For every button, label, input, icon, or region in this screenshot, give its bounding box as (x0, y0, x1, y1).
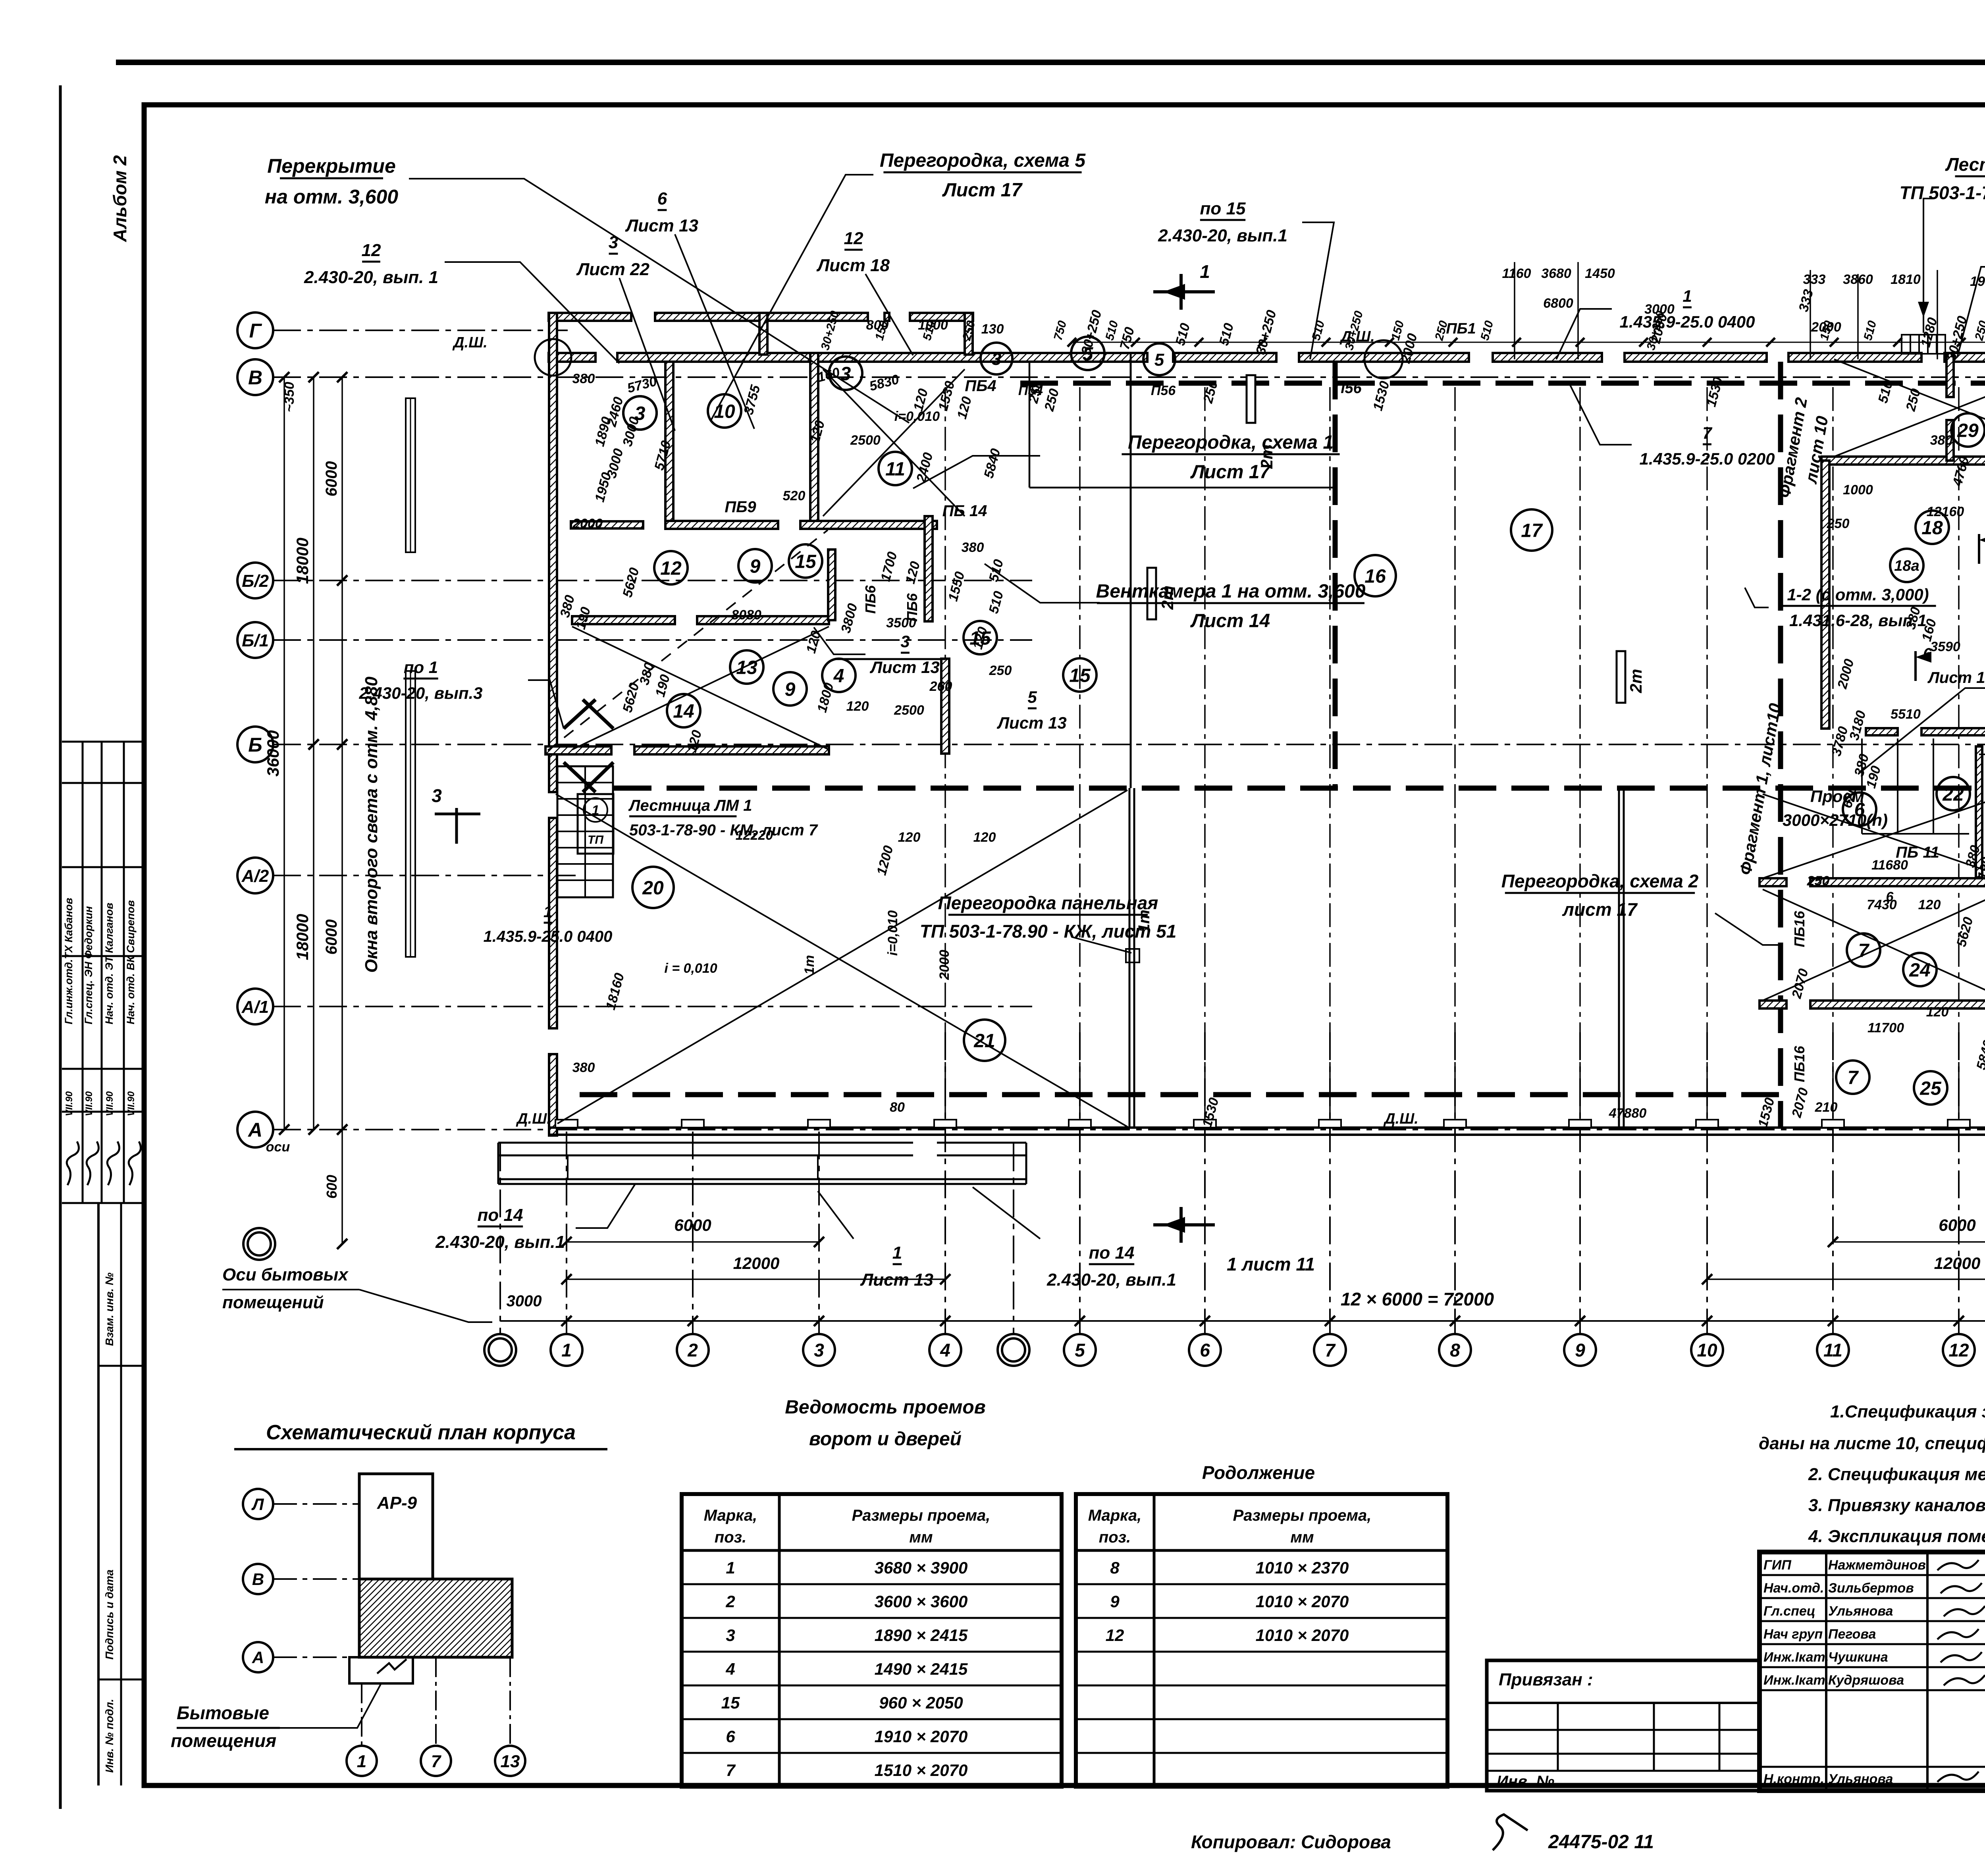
svg-text:6: 6 (1200, 1340, 1210, 1361)
step wall x1923 (759, 313, 767, 355)
heavy dashed vertical Фрагмент2 (1333, 362, 1338, 788)
svg-text:Венткамера 1 на отм. 3,600: Венткамера 1 на отм. 3,600 (1096, 581, 1366, 602)
svg-text:4: 4 (940, 1340, 950, 1361)
svg-text:18000: 18000 (293, 538, 312, 584)
svg-text:12: 12 (1106, 1626, 1124, 1645)
room circle 20 (632, 867, 674, 908)
svg-text:2.430-20, вып.3: 2.430-20, вып.3 (358, 684, 482, 702)
svg-text:Размеры проема,: Размеры проема, (852, 1507, 991, 1524)
svg-text:333: 333 (1803, 272, 1826, 287)
window symbol left upper (406, 398, 415, 552)
svg-text:600: 600 (324, 1175, 340, 1199)
svg-text:Копировал: Сидорова: Копировал: Сидорова (1191, 1832, 1391, 1852)
svg-text:лист 17: лист 17 (1562, 899, 1638, 920)
grid axis А (237, 1112, 273, 1147)
svg-text:12: 12 (660, 558, 682, 579)
svg-text:29: 29 (1957, 420, 1979, 441)
room circle 18 (1916, 511, 1949, 544)
room circle 4 (822, 659, 856, 692)
svg-text:Альбом 2: Альбом 2 (110, 155, 130, 243)
svg-text:Лист 13: Лист 13 (860, 1270, 933, 1290)
left annex (household rooms) (498, 1142, 913, 1144)
room 18 left wall (1821, 461, 1829, 729)
room circle 21 (964, 1020, 1005, 1061)
axis line А/2 (273, 875, 576, 876)
svg-text:4. Экспликация помещений да: 4. Экспликация помещений дана на листе 9… (1808, 1527, 1985, 1546)
sheet left edge (59, 85, 62, 1809)
svg-text:Пегова: Пегова (1828, 1627, 1876, 1642)
svg-text:3000×2710(h): 3000×2710(h) (1783, 811, 1888, 829)
svg-text:Окна второго света с отм. 4,88: Окна второго света с отм. 4,880 (362, 677, 381, 973)
svg-text:24475-02 11: 24475-02 11 (1548, 1832, 1654, 1853)
grid axis А/2 (237, 858, 273, 893)
svg-text:Перекрытие: Перекрытие (267, 155, 396, 177)
svg-text:ПБ16: ПБ16 (1791, 910, 1808, 947)
room circle 10 (708, 394, 741, 428)
svg-text:21: 21 (973, 1030, 995, 1051)
wall opening circle 3 (981, 343, 1012, 374)
column circle 11 (1817, 1334, 1849, 1366)
svg-text:VII.90: VII.90 (64, 1091, 75, 1116)
heavy dashed line lower (580, 1092, 1781, 1097)
column axis 3 (818, 1132, 820, 1334)
svg-text:ГИП: ГИП (1763, 1558, 1792, 1573)
svg-text:1: 1 (543, 903, 552, 921)
wall right of room 15 upper (925, 516, 933, 621)
привязан table (1487, 1660, 1760, 1791)
svg-text:Нач.отд.: Нач.отд. (1763, 1581, 1824, 1596)
svg-text:5: 5 (1027, 688, 1037, 706)
svg-text:22: 22 (1942, 784, 1964, 805)
schematic grid circle Л (243, 1489, 273, 1519)
svg-text:9: 9 (1575, 1340, 1585, 1361)
wall right of room 11 (810, 353, 818, 528)
left dim chain 18000 (313, 377, 314, 744)
svg-text:2т: 2т (1627, 669, 1645, 694)
svg-text:мм: мм (1290, 1529, 1314, 1546)
svg-text:6: 6 (657, 189, 667, 208)
svg-text:6: 6 (1886, 889, 1894, 904)
column axis 5 (1079, 1032, 1081, 1334)
svg-text:Оси бытовых: Оси бытовых (222, 1265, 349, 1284)
building left wall (549, 313, 557, 792)
column circle 12 (1943, 1334, 1975, 1366)
room circle 12 (654, 551, 688, 584)
svg-text:ПБ 14: ПБ 14 (942, 502, 987, 520)
svg-text:8080: 8080 (731, 607, 761, 623)
svg-text:4: 4 (725, 1660, 735, 1678)
svg-text:380: 380 (1930, 433, 1953, 448)
svg-text:7: 7 (1702, 424, 1712, 442)
svg-text:7: 7 (1325, 1340, 1336, 1361)
room circle 3 (623, 396, 657, 430)
column axis 6 (1204, 1032, 1206, 1334)
axis line Б/1 (273, 639, 1032, 641)
svg-text:ПБ4: ПБ4 (965, 377, 996, 395)
room circle 3 (623, 396, 657, 430)
svg-text:Нач груп: Нач груп (1763, 1627, 1823, 1642)
svg-text:12: 12 (844, 229, 863, 248)
svg-text:4: 4 (833, 665, 844, 686)
sheet outer top border (116, 60, 1985, 65)
stairs ЛМ2 symbol top (1902, 335, 1945, 354)
svg-text:Лист 12: Лист 12 (1927, 669, 1985, 686)
svg-text:Д.Ш.: Д.Ш. (1383, 1111, 1418, 1127)
schematic column circles (361, 1683, 362, 1745)
grid axis Б (237, 727, 273, 762)
crane mark 2т lower (1617, 651, 1625, 703)
svg-text:5: 5 (1075, 1340, 1085, 1361)
svg-text:6: 6 (726, 1727, 735, 1746)
svg-text:Марка,: Марка, (704, 1507, 757, 1524)
svg-text:10: 10 (714, 401, 735, 422)
svg-text:9: 9 (750, 556, 761, 577)
room circle 16 (1355, 555, 1396, 596)
wall opening circle 5 (1143, 343, 1175, 375)
svg-text:12000: 12000 (733, 1254, 780, 1273)
svg-text:20: 20 (642, 877, 664, 898)
toilet partitions right block (1861, 738, 1863, 834)
column axis 8 (1454, 1032, 1456, 1334)
svg-text:1.435.9-25.0 0400: 1.435.9-25.0 0400 (484, 928, 613, 945)
crane mark 2т upper (1147, 568, 1156, 619)
room circle 7 (1836, 1060, 1869, 1094)
svg-text:Перегородка, схема 2: Перегородка, схема 2 (1501, 871, 1699, 891)
svg-text:по 1: по 1 (404, 658, 438, 677)
svg-text:П56: П56 (1334, 380, 1362, 397)
svg-text:3590: 3590 (1930, 639, 1960, 654)
svg-text:ворот и дверей: ворот и дверей (809, 1429, 962, 1450)
ramp cross rooms 13/14 (572, 627, 829, 750)
column axis 7 (1329, 1032, 1331, 1334)
svg-text:1010 × 2370: 1010 × 2370 (1256, 1558, 1349, 1577)
wall room 15 lower (941, 659, 949, 754)
axis line А/1 (273, 1006, 1032, 1007)
svg-text:250: 250 (989, 663, 1012, 678)
svg-text:ТП 503-1-78.90 - КЖ, лист 51: ТП 503-1-78.90 - КЖ, лист 51 (920, 921, 1177, 941)
svg-text:2: 2 (725, 1592, 735, 1611)
column circle 5 (1064, 1334, 1096, 1366)
grid axis Г (237, 312, 273, 348)
wall x4905 upper (1946, 353, 1954, 397)
room circle 11 (879, 452, 912, 485)
svg-text:120: 120 (1926, 1005, 1949, 1020)
svg-text:13: 13 (736, 657, 757, 678)
svg-text:1490 × 2415: 1490 × 2415 (875, 1660, 968, 1678)
svg-text:8: 8 (1110, 1558, 1120, 1577)
building bottom wall (549, 1126, 1985, 1129)
svg-text:Размеры проема,: Размеры проема, (1233, 1507, 1372, 1524)
room 22 wall (1760, 878, 1786, 886)
bottom dim 6000/12000 right (1833, 1241, 1985, 1243)
svg-text:Б/1: Б/1 (242, 631, 269, 650)
svg-text:1010 × 2070: 1010 × 2070 (1256, 1592, 1349, 1611)
svg-text:даны на листе 10, спецификация: даны на листе 10, спецификация перемычек… (1759, 1434, 1985, 1453)
wall between rooms 10/11 (665, 362, 673, 528)
svg-text:9: 9 (1110, 1592, 1120, 1611)
svg-text:3500: 3500 (886, 615, 916, 630)
svg-text:на отм. 3,600: на отм. 3,600 (265, 186, 398, 208)
svg-text:Марка,: Марка, (1088, 1507, 1142, 1524)
svg-text:1010 × 2070: 1010 × 2070 (1256, 1626, 1349, 1645)
svg-text:1: 1 (357, 1752, 366, 1771)
axis line А (273, 1129, 1985, 1130)
svg-text:1.435.9-25.0 0200: 1.435.9-25.0 0200 (1640, 449, 1775, 468)
diagonal room 20 (556, 794, 1127, 1127)
wall x2095 (828, 549, 835, 620)
ДШ joint circle (1364, 340, 1403, 378)
svg-text:1.435.9-25.0 0400: 1.435.9-25.0 0400 (1620, 312, 1755, 331)
svg-text:47880: 47880 (1609, 1106, 1647, 1121)
schematic plan hatched block (359, 1579, 512, 1657)
door swing marks at Б (564, 700, 595, 729)
svg-text:2.430-20, вып. 1: 2.430-20, вып. 1 (304, 268, 438, 287)
partition x2845 upper (1130, 353, 1132, 788)
openings table 2 (1076, 1494, 1447, 1787)
room circle 15 (1063, 658, 1097, 692)
svg-text:6000: 6000 (323, 461, 340, 497)
svg-text:7: 7 (726, 1761, 736, 1780)
svg-text:11700: 11700 (1867, 1020, 1904, 1035)
svg-text:i=0,010: i=0,010 (894, 409, 940, 424)
schematic plan bottom tab (349, 1657, 413, 1683)
svg-text:3600 × 3600: 3600 × 3600 (875, 1592, 968, 1611)
room circle 13 (730, 650, 763, 684)
svg-text:18: 18 (1921, 517, 1943, 538)
svg-text:Инв. №: Инв. № (1497, 1773, 1554, 1790)
svg-text:1: 1 (1682, 287, 1692, 305)
grid axis А/1 (237, 989, 273, 1024)
svg-text:7: 7 (1858, 940, 1870, 961)
svg-text:VII.90: VII.90 (126, 1091, 137, 1116)
svg-text:25: 25 (1919, 1078, 1942, 1099)
room 18 bottom wall (1866, 728, 1898, 735)
svg-text:1890 × 2415: 1890 × 2415 (875, 1626, 968, 1645)
svg-text:1510 × 2070: 1510 × 2070 (875, 1761, 968, 1780)
stairs ЛМ1 (557, 766, 613, 897)
svg-text:1: 1 (726, 1558, 735, 1577)
svg-text:2т: 2т (1257, 445, 1276, 469)
room 24/25 wall (1760, 1001, 1786, 1008)
svg-text:260: 260 (929, 679, 952, 694)
wall piece ПБ9 (571, 521, 643, 528)
svg-text:3. Привязку каналов, канав,: 3. Привязку каналов, канав, приямков см.… (1808, 1496, 1985, 1515)
svg-text:поз.: поз. (1099, 1529, 1131, 1546)
bottom dimension line 12x6000 (500, 1320, 1985, 1322)
svg-text:6000: 6000 (323, 920, 340, 955)
svg-text:3: 3 (992, 349, 1001, 369)
svg-text:1000: 1000 (1843, 482, 1873, 497)
svg-text:12: 12 (362, 241, 381, 260)
room circle 9 (738, 549, 772, 582)
svg-text:Нач. отд. ВК Свирепов: Нач. отд. ВК Свирепов (125, 900, 137, 1024)
svg-text:11: 11 (1823, 1340, 1842, 1361)
grid axis Б/1 (237, 622, 273, 658)
svg-text:Ульянова: Ульянова (1828, 1772, 1893, 1787)
svg-text:Лист 13: Лист 13 (625, 216, 698, 235)
svg-text:Д.Ш.: Д.Ш. (452, 334, 488, 351)
svg-text:3680: 3680 (1541, 266, 1571, 281)
svg-text:2500: 2500 (894, 703, 924, 718)
column circle 4 (929, 1334, 961, 1366)
blank axis circle mid (1013, 1143, 1014, 1334)
ramp cross room 24 (1763, 889, 1985, 1001)
svg-text:1910: 1910 (1970, 274, 1985, 289)
svg-text:Чушкина: Чушкина (1828, 1650, 1888, 1665)
svg-text:Лист 13: Лист 13 (869, 658, 940, 677)
svg-text:1: 1 (892, 1243, 902, 1263)
svg-text:3: 3 (432, 785, 442, 806)
svg-text:А/2: А/2 (241, 866, 269, 886)
svg-text:1-2 (с отм. 3,000): 1-2 (с отм. 3,000) (1787, 585, 1929, 604)
svg-text:120: 120 (846, 699, 869, 714)
svg-text:2.430-20, вып.1: 2.430-20, вып.1 (1046, 1270, 1176, 1290)
axis line Б (273, 744, 1985, 745)
building top-left upper wall (axis Г) (549, 313, 631, 321)
svg-text:VII.90: VII.90 (84, 1091, 94, 1116)
column circle 10 (1691, 1334, 1723, 1366)
ramp cross room 29/18 (1834, 359, 1985, 457)
svg-text:5510: 5510 (1891, 707, 1921, 722)
svg-text:по 14: по 14 (478, 1205, 523, 1225)
svg-text:1450: 1450 (1585, 266, 1615, 281)
svg-text:ПБ1: ПБ1 (1446, 320, 1476, 337)
svg-text:15: 15 (721, 1693, 740, 1712)
svg-text:Лестница ЛМ 1: Лестница ЛМ 1 (628, 797, 752, 814)
svg-text:АР-9: АР-9 (377, 1493, 417, 1513)
svg-text:ПБ9: ПБ9 (725, 498, 756, 516)
svg-text:2: 2 (687, 1340, 698, 1361)
svg-text:помещений: помещений (222, 1293, 324, 1312)
svg-text:15: 15 (795, 551, 817, 572)
schematic grid circle В (243, 1564, 273, 1594)
wall below room 29 (1821, 457, 1985, 465)
svg-text:2.430-20, вып.1: 2.430-20, вып.1 (435, 1232, 565, 1252)
wall below room 11 (ПБ14) (665, 521, 778, 529)
column circle 1 (551, 1334, 582, 1366)
svg-text:520: 520 (783, 488, 806, 503)
schematic plan upper block АР-9 (359, 1474, 433, 1579)
tick row above top wall (1068, 338, 1076, 347)
svg-text:ТП: ТП (588, 833, 604, 846)
svg-text:Гл.инж.отд.ТХ Кабанов: Гл.инж.отд.ТХ Кабанов (63, 898, 75, 1024)
vent room boundary line (1029, 487, 1335, 489)
svg-text:Нажметдинов: Нажметдинов (1828, 1558, 1926, 1573)
svg-text:Лист 18: Лист 18 (816, 256, 890, 275)
stairs ЛМ1 tag (578, 794, 613, 854)
section mark 1 top (1179, 274, 1183, 310)
building top wall (axis В) (549, 353, 595, 362)
svg-text:1: 1 (561, 1340, 572, 1361)
svg-text:Привязан :: Привязан : (1499, 1670, 1593, 1689)
svg-text:12000: 12000 (1934, 1254, 1981, 1273)
svg-text:2.430-20, вып.1: 2.430-20, вып.1 (1158, 226, 1287, 245)
svg-text:Лист 13: Лист 13 (996, 713, 1067, 732)
svg-text:6800: 6800 (1543, 296, 1573, 311)
svg-text:Перегородка панельная: Перегородка панельная (938, 893, 1158, 913)
diagonal dash room 12 (548, 530, 828, 750)
room circle 5 (1071, 337, 1104, 370)
room circle 9 (773, 672, 807, 706)
left archive strip (97, 1203, 100, 1785)
svg-text:2. Спецификация металлических: 2. Спецификация металлических элементов … (1808, 1465, 1985, 1484)
column circle 6 (1189, 1334, 1221, 1366)
svg-text:13: 13 (501, 1752, 520, 1771)
svg-text:12160: 12160 (1927, 504, 1964, 519)
left dim chain 6000s (341, 377, 343, 580)
svg-text:Родолжение: Родолжение (1202, 1462, 1315, 1483)
svg-text:12220: 12220 (736, 828, 773, 843)
svg-text:5: 5 (1154, 350, 1164, 370)
svg-text:помещения: помещения (171, 1730, 276, 1751)
room circle 29 (1951, 413, 1985, 447)
svg-text:18а: 18а (1894, 558, 1919, 575)
axis line Г (273, 330, 568, 331)
wall on axis Б left (545, 746, 611, 754)
svg-text:ТП 503-1-78.90-КМ, лист 7: ТП 503-1-78.90-КМ, лист 7 (1899, 182, 1985, 203)
svg-text:380: 380 (572, 371, 595, 386)
svg-text:1т: 1т (802, 955, 817, 974)
svg-text:1810: 1810 (1891, 272, 1921, 287)
svg-text:Перегородка, схема 1: Перегородка, схема 1 (1128, 432, 1334, 453)
svg-text:Инж.Iкат.: Инж.Iкат. (1763, 1673, 1829, 1688)
room circle 17 (1511, 509, 1552, 551)
svg-text:12: 12 (1948, 1340, 1969, 1361)
svg-text:А: А (247, 1119, 262, 1141)
svg-text:Н.контр.: Н.контр. (1763, 1772, 1824, 1787)
column circle 3 (803, 1334, 835, 1366)
heavy dashed line upper (1020, 381, 1985, 386)
ramp cross room 22 (1763, 794, 1985, 878)
svg-text:по 15: по 15 (1200, 199, 1246, 218)
panel partition 1т (1129, 788, 1131, 1127)
room circle 15 (964, 621, 997, 654)
svg-text:3: 3 (840, 363, 851, 384)
grid axis Б/2 (237, 563, 273, 598)
axis line Б/2 (273, 580, 1032, 581)
svg-text:3: 3 (726, 1626, 735, 1645)
svg-text:960 × 2050: 960 × 2050 (879, 1693, 963, 1712)
room circle 7 (1847, 933, 1880, 967)
svg-text:2000: 2000 (937, 950, 952, 980)
svg-text:17: 17 (1521, 520, 1543, 541)
svg-text:Зильбертов: Зильбертов (1828, 1581, 1914, 1596)
svg-text:Лист 22: Лист 22 (576, 260, 649, 279)
svg-text:120: 120 (1918, 897, 1941, 912)
svg-text:Гл.спец: Гл.спец (1763, 1604, 1815, 1619)
svg-text:Д.Ш.: Д.Ш. (516, 1111, 551, 1127)
column circle 2 (677, 1334, 709, 1366)
column axis 11 (1832, 1032, 1834, 1334)
svg-text:12 × 6000 = 72000: 12 × 6000 = 72000 (1341, 1289, 1494, 1309)
room circle 22 (1937, 777, 1970, 810)
svg-text:9: 9 (785, 679, 796, 700)
column axis 12 (1958, 1032, 1960, 1334)
svg-text:1910 × 2070: 1910 × 2070 (875, 1727, 968, 1746)
ramp cross room 11 (823, 369, 965, 516)
room circle 25 (1914, 1071, 1947, 1105)
svg-text:Ведомость проемов: Ведомость проемов (785, 1397, 985, 1418)
svg-text:Лестница ЛМ 2: Лестница ЛМ 2 (1945, 154, 1985, 175)
svg-text:Взам. инв. №: Взам. инв. № (103, 1273, 116, 1346)
room circle 6 (1843, 792, 1876, 826)
svg-text:3: 3 (814, 1340, 824, 1361)
svg-text:11680: 11680 (1871, 858, 1908, 873)
svg-text:В: В (252, 1570, 264, 1589)
column axis 4 (944, 1032, 946, 1334)
svg-text:П56: П56 (1151, 383, 1176, 398)
svg-text:14: 14 (673, 701, 694, 722)
